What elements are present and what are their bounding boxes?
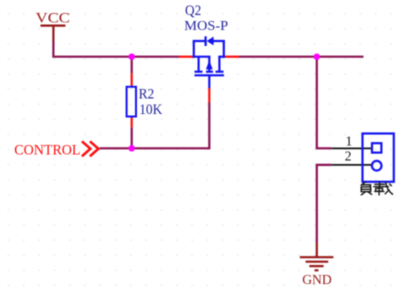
svg-text:2: 2 [345, 149, 352, 164]
svg-text:GND: GND [302, 273, 332, 287]
svg-text:1: 1 [346, 134, 353, 149]
svg-text:CONTROL: CONTROL [14, 143, 80, 159]
svg-text:MOS-P: MOS-P [184, 19, 228, 34]
svg-text:R2: R2 [139, 86, 155, 102]
svg-text:10K: 10K [139, 102, 163, 118]
svg-text:VCC: VCC [36, 10, 70, 26]
svg-text:Q2: Q2 [185, 3, 201, 19]
